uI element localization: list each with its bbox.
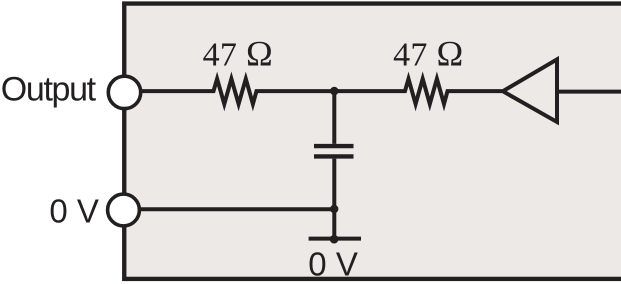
svg-text:47 Ω: 47 Ω: [203, 34, 273, 74]
svg-text:0 V: 0 V: [49, 192, 99, 229]
svg-text:0 V: 0 V: [308, 245, 358, 282]
svg-text:Output: Output: [1, 70, 97, 108]
svg-text:47 Ω: 47 Ω: [393, 34, 463, 74]
